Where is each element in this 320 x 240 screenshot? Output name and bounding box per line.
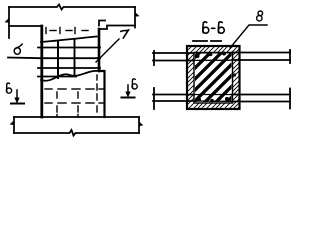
concrete break curve bbox=[41, 71, 99, 81]
column lower-right face bbox=[99, 71, 105, 117]
lower column dashed rebar vertical 1 bbox=[56, 92, 58, 117]
beam soffit left segment bbox=[9, 25, 40, 27]
fine hatch in stirrup ring bbox=[88, 0, 320, 146]
soffit hook detail bbox=[99, 21, 105, 26]
label 7 (position 7) bbox=[121, 30, 129, 38]
bold diagonal hatch of column core bbox=[106, 0, 320, 146]
bottom band right end cap bbox=[289, 89, 291, 109]
rebar grid horizontal bar 4 bbox=[38, 76, 76, 78]
section B-B ties bottom band left bbox=[153, 94, 194, 96]
column upper-right face bbox=[98, 29, 101, 71]
beam right end vertical bbox=[134, 7, 136, 28]
section B-B ties top band crossing core bbox=[194, 53, 232, 61]
tick on foundation left vertical bbox=[10, 121, 14, 125]
top band left end cap bbox=[153, 51, 155, 65]
beam top chord with break symbol bbox=[9, 5, 135, 10]
lower column dashed rebar vertical 2 bbox=[77, 92, 79, 117]
section mark left arrow bbox=[11, 90, 24, 104]
longitudinal bar dots in section bbox=[196, 52, 237, 103]
foundation bottom line with break symbol bbox=[14, 130, 139, 136]
tick on foundation right vertical bbox=[139, 122, 143, 126]
rebar grid horizontal bar 3 bbox=[38, 67, 100, 69]
tick on beam left end bbox=[5, 19, 9, 23]
section B-B ties top band left bbox=[153, 52, 194, 54]
rebar grid top sloped bar bbox=[41, 37, 97, 43]
leader line for label 8 bbox=[230, 25, 267, 48]
outer stirrup square of section bbox=[187, 46, 240, 109]
section title в-в bbox=[203, 22, 225, 33]
label в of right section mark bbox=[132, 79, 137, 89]
section B-B ties bottom band right bbox=[232, 94, 290, 96]
bottom band left end cap bbox=[153, 88, 155, 109]
beam soffit right segment with step bbox=[99, 26, 135, 30]
leader line for label 7 bbox=[96, 39, 119, 62]
section mark right arrow bbox=[122, 85, 135, 98]
inner core square of section bbox=[194, 53, 233, 104]
column upper-left face bbox=[40, 26, 43, 117]
rebar grid horizontal bar 1 bbox=[38, 47, 100, 49]
rebar grid vertical bar 2 bbox=[74, 39, 76, 76]
foundation right vertical bbox=[138, 117, 140, 133]
top band right end cap bbox=[289, 50, 291, 63]
foundation top line bbox=[14, 116, 139, 118]
lower column dashed rebar horizontal 1 bbox=[45, 88, 104, 90]
rebar grid vertical bar 1 bbox=[57, 41, 59, 78]
hidden soffit dashed line bbox=[46, 28, 88, 34]
title underline for section B-B bbox=[193, 40, 221, 42]
label в of left section mark bbox=[6, 83, 11, 93]
label б (position 6) bbox=[14, 44, 22, 54]
lower column dashed rebar horizontal 2 bbox=[45, 102, 104, 104]
rebar grid horizontal bar 2 with label leader bbox=[8, 57, 100, 60]
beam left end vertical bbox=[8, 7, 10, 38]
foundation left vertical bbox=[13, 117, 15, 133]
label 8 (position 8) bbox=[257, 11, 263, 21]
lower column dashed rebar vertical 3 bbox=[96, 75, 98, 112]
section B-B ties bottom band crossing core bbox=[194, 95, 232, 102]
tick on beam right end bbox=[135, 13, 139, 17]
section B-B ties top band right bbox=[232, 52, 290, 54]
